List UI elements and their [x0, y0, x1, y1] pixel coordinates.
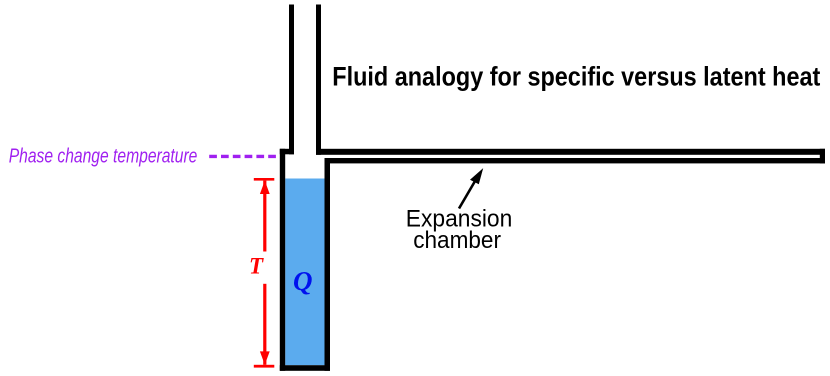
dimension T: top tick: [254, 178, 274, 181]
svg-text:Q: Q: [293, 266, 313, 296]
dimension T: lower arrowhead: [260, 351, 270, 364]
phase change dashed line: [209, 155, 276, 158]
expansion chamber top wall: [316, 149, 825, 155]
dimension T: upper arrow line: [263, 181, 266, 252]
svg-text:Fluid analogy for specific ver: Fluid analogy for specific versus latent…: [332, 62, 820, 92]
svg-text:chamber: chamber: [413, 228, 501, 254]
dimension T: upper arrowhead: [260, 181, 270, 194]
svg-text:Phase change temperature: Phase change temperature: [9, 145, 198, 168]
vessel shoulder step: [280, 149, 294, 155]
expansion chamber pointer arrowhead: [470, 168, 483, 184]
expansion chamber bottom wall: [325, 158, 826, 163]
vessel bottom wall: [280, 365, 330, 371]
liquid fill Q: [285, 179, 324, 366]
narrow tube right wall: [316, 5, 321, 155]
vessel left wall: [280, 149, 285, 371]
dimension T: bottom tick: [254, 365, 274, 368]
narrow tube left wall: [289, 5, 294, 155]
expansion chamber pointer arrow: [459, 176, 478, 209]
dimension T: lower arrow line: [263, 284, 266, 365]
vessel right wall: [325, 158, 331, 371]
expansion chamber right end cap: [820, 149, 825, 164]
svg-text:T: T: [249, 254, 264, 279]
